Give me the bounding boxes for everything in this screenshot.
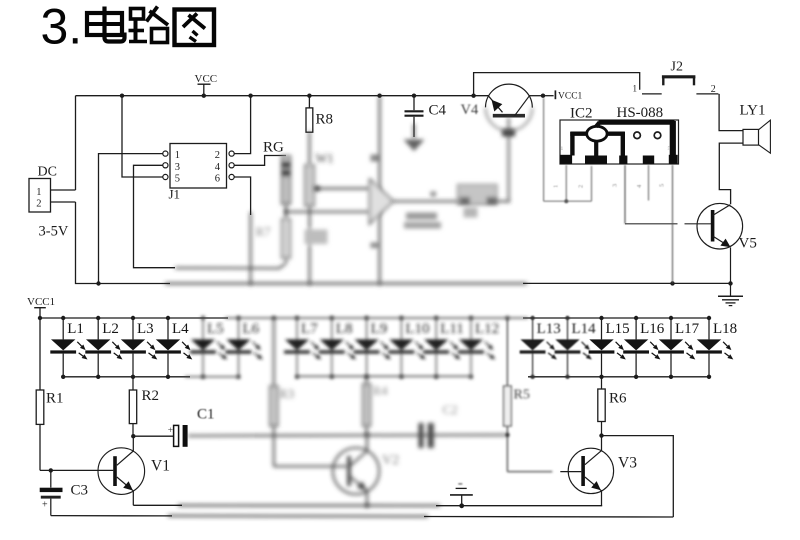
label R3 [279,386,294,401]
LED L11 [423,316,464,379]
V3 base bar [581,456,585,486]
svg-text:R4: R4 [373,383,389,398]
svg-text:L11: L11 [440,321,464,337]
blurred text marks [404,213,441,229]
svg-text:L14: L14 [572,321,597,337]
svg-text:+: + [42,500,48,511]
resistor R1 [36,390,44,424]
V5 collector diag [713,205,731,216]
LED L16 [623,316,665,379]
capacitor C3 [40,470,63,515]
node ground-line junction [96,281,100,285]
wire J1 pin2 to VCC [234,96,250,154]
wire to C1 [133,435,173,437]
resistor R8 [306,96,313,133]
LED L6 [226,316,263,379]
svg-text:5: 5 [659,184,666,187]
svg-text:L9: L9 [371,321,388,337]
W1 wiper node [315,186,320,191]
wire W1 wiper to oscillator [314,188,369,190]
label R1 [46,391,64,407]
label V1 [151,458,170,475]
svg-text:V5: V5 [739,236,757,252]
IC2 outline box [560,120,679,164]
wire LED top bus left [40,317,228,319]
J1 pin circles left [163,151,168,180]
wire R1 to V1 base [40,424,113,470]
connector DC [29,179,76,213]
LED L10 [389,316,430,379]
wire J1 pin3 down [134,165,176,267]
svg-text:L17: L17 [675,321,700,337]
wire LED bottom bus g3 [528,376,709,378]
svg-text:C4: C4 [429,103,447,119]
title glyph tu [175,10,215,46]
svg-text:V4: V4 [461,102,479,118]
resistor R5 [504,318,553,472]
V4 collector [515,96,543,116]
V5 emitter [713,236,731,283]
J1 pin numbers left [175,150,180,184]
V3 collector [585,436,602,465]
label R6 [609,391,627,407]
wire oscillator to V4 base [394,192,510,202]
svg-text:L12: L12 [475,321,499,337]
title glyph lu [129,7,169,43]
svg-text:R5: R5 [514,388,530,403]
speaker LY1 [743,120,770,153]
wire J1 pin4 to RG [234,156,286,166]
svg-text:C3: C3 [71,483,89,499]
svg-text:L2: L2 [102,321,119,337]
V5 base bar [711,210,715,242]
label W1 [316,152,334,166]
LED L3 [120,316,157,379]
svg-text:R2: R2 [142,388,160,404]
label HS-088 [617,105,664,121]
label LY1 [740,103,766,119]
svg-text:R3: R3 [279,386,294,401]
ground symbol bottom [450,484,473,508]
wire R8 to W1 [308,131,310,165]
IC2 right thick trace [670,121,676,156]
capacitor C1 [168,425,188,447]
LED L7 [284,316,321,379]
resistor R6 [598,377,605,436]
svg-text:V1: V1 [151,458,170,475]
IC2 pad 3 [619,156,627,164]
svg-text:L8: L8 [336,321,353,337]
wire bottom line right [424,516,673,519]
IC2 corner marks [561,146,671,152]
LED L14 [555,316,597,379]
label J2 pin 1 [633,84,638,94]
svg-text:L16: L16 [640,321,665,337]
V4 emitter wire+arrow [488,96,502,113]
wire J2 pin2 to speaker [719,94,743,131]
svg-text:5: 5 [175,174,180,185]
label V4 [461,102,479,118]
svg-text:2: 2 [215,150,220,161]
node top bus junction [38,316,42,320]
node V1 collector junction [131,434,135,438]
resistor R3 [270,318,278,426]
svg-text:2: 2 [711,84,716,95]
title glyph dian [87,7,125,42]
V3 base wire [560,471,581,473]
capacitor C2 [419,423,434,448]
label C1 [197,407,215,423]
LED L1 [50,316,87,379]
wire J1 pin5 to VCC [122,96,163,177]
label R4 [373,383,389,398]
wire J1 pin1 to ground [99,154,163,284]
IC2 mic ellipse [587,122,607,141]
wire J1 pin6 down [234,177,250,215]
capacitor C4 [405,96,424,137]
wire V4 to J2 pin1 [474,73,640,96]
wire C1 to R5 junction [188,433,507,438]
wire LED top bus right [523,317,709,319]
wire V5 base [625,223,711,225]
LED L5 [190,316,227,379]
resistor R2 [129,377,136,436]
IC2 top thick bar [599,120,675,125]
resistor R7 [282,219,291,258]
svg-text:R7: R7 [256,224,272,239]
label V5 [739,236,757,252]
svg-text:RG: RG [263,140,284,156]
switch J2 bracket [662,77,696,86]
wire mid vertical VCC to ground [371,96,382,283]
J2 right contact [696,93,718,95]
IC2 pad 5 [669,155,678,164]
node RG bottom junction [284,204,289,219]
LED L15 [589,316,630,379]
svg-text:L15: L15 [606,321,630,337]
svg-text:L18: L18 [713,321,737,337]
wire DC pin2 to ground line [76,202,171,284]
connector J1 box [170,144,227,189]
node V3 collector junction [599,433,603,437]
label J2 [671,60,683,75]
svg-text:1: 1 [553,185,560,188]
transistor V2 [333,435,379,508]
wire RG junction to oscillator [286,211,370,213]
label R7 [256,224,272,239]
IC2 left trace [570,132,587,156]
LED L9 [354,316,391,379]
wire J1 pin6 to ground [250,212,252,284]
node rail junctions [120,94,545,98]
J2 left contact [642,93,662,95]
wire emitter line right [436,505,602,507]
wire bottom line middle [168,515,428,518]
svg-text:R6: R6 [609,391,627,407]
wire C4 lower lead [413,124,415,139]
label R8 [316,112,334,128]
svg-text:1: 1 [633,84,638,94]
wire bottom line left [51,515,172,517]
wire VCC1 rail down [39,318,41,390]
svg-text:1: 1 [36,187,41,198]
IC2 holes [634,132,661,139]
LED L12 [458,316,499,379]
blurred chip block [458,185,498,218]
IC2 pad 2 [585,156,607,164]
ground symbol V5 [718,283,743,305]
ground symbol under C4 [404,140,425,152]
V1 base bar [113,456,117,486]
wire LED bottom bus g1 [63,376,190,378]
wire ground line right [523,282,731,284]
node C3 tap [49,468,53,472]
svg-text:L13: L13 [537,321,561,337]
svg-text:C1: C1 [197,407,215,423]
IC2 pin wires [544,98,673,283]
svg-text:L5: L5 [207,321,224,337]
label J2 pin 2 [711,84,716,95]
svg-text:IC2: IC2 [570,106,593,122]
svg-text:VCC1: VCC1 [27,296,55,308]
node V5 emitter ground [728,281,732,285]
svg-text:3-5V: 3-5V [39,224,69,240]
VCC1 symbol top [543,90,583,101]
svg-text:R1: R1 [46,391,64,407]
svg-text:L1: L1 [67,321,84,337]
IC2 center trace [594,141,598,157]
label C4 [429,103,447,119]
V3 emitter [585,477,602,506]
svg-text:3: 3 [175,162,180,173]
wire speaker to V5 collector [719,143,743,204]
transistor V1 circle [98,448,145,495]
svg-text:DC: DC [38,165,57,180]
J1 pin circles right [229,151,234,180]
svg-text:2: 2 [578,185,585,188]
oscillator triangle [370,179,394,225]
svg-text:J1: J1 [169,187,181,202]
svg-text:L4: L4 [172,321,189,337]
wire V4 base lead down [502,118,515,202]
label V2 [382,453,399,468]
wire rail to DC pin1 [75,96,77,190]
LED L18 [696,316,737,379]
blurred LED bus middle [185,316,528,377]
label C3 [71,483,89,499]
svg-text:L7: L7 [301,321,318,337]
IC2 pad 1 [560,155,572,164]
label IC2 [570,106,593,122]
transistor V3 circle [568,448,613,493]
svg-text:VCC1: VCC1 [558,92,583,102]
label DC [38,165,57,180]
node IC pin5 ground [670,281,674,285]
svg-text:6: 6 [215,174,220,185]
svg-text:L10: L10 [405,321,429,337]
VCC power symbol [195,73,218,96]
resistor RG body [282,156,291,204]
svg-text:HS-088: HS-088 [617,105,664,121]
svg-text:3.: 3. [41,0,83,55]
svg-text:L6: L6 [243,321,260,337]
svg-text:LY1: LY1 [740,103,766,119]
wire V1 emitter line [133,504,182,506]
label C2 [443,402,458,417]
transistor V5 circle [697,203,743,249]
svg-text:V2: V2 [382,453,399,468]
VCC1 power symbol bottom [27,296,55,318]
svg-text:V3: V3 [618,455,637,472]
IC2 pad 4 [643,156,654,164]
transistor V4 lower arc [485,107,532,131]
IC2 pin number labels [553,184,666,188]
J1 pin numbers right [215,150,221,184]
svg-text:L3: L3 [137,321,154,337]
IC2 right inner trace [607,132,625,156]
V1 collector [117,436,134,465]
svg-text:3: 3 [612,184,619,187]
svg-text:W1: W1 [316,152,334,166]
svg-text:+: + [168,426,173,436]
LED L4 [155,316,192,379]
V1 emitter [117,477,134,505]
svg-text:VCC: VCC [195,73,218,85]
title text 3. [41,0,83,55]
svg-text:1: 1 [561,146,564,152]
wire W1 to ground [305,206,328,284]
wire V3 loop [602,436,674,517]
svg-text:4: 4 [215,162,221,173]
LED L17 [658,316,700,379]
LED L2 [85,316,122,379]
svg-text:1: 1 [175,150,180,161]
label J1 [169,187,181,202]
svg-text:2: 2 [36,199,41,210]
LED L8 [319,316,356,379]
transistor V4 circle [486,84,533,108]
wire emitter line middle [178,504,440,506]
wire ground line middle [165,281,527,285]
potentiometer W1 body [305,165,314,206]
resistor R4 [363,376,370,435]
svg-text:5: 5 [668,146,671,152]
svg-text:C2: C2 [443,402,458,417]
LED L13 [520,316,561,379]
wire R7 bottom [175,258,286,268]
wire VCC rail [76,95,489,97]
label V3 [618,455,637,472]
label RG [263,140,284,156]
label R2 [142,388,160,404]
svg-text:R8: R8 [316,112,334,128]
svg-text:J2: J2 [671,60,683,75]
wire R3 to V2 base [274,426,348,466]
V4 base bar [493,114,525,118]
label 3-5V [39,224,69,240]
